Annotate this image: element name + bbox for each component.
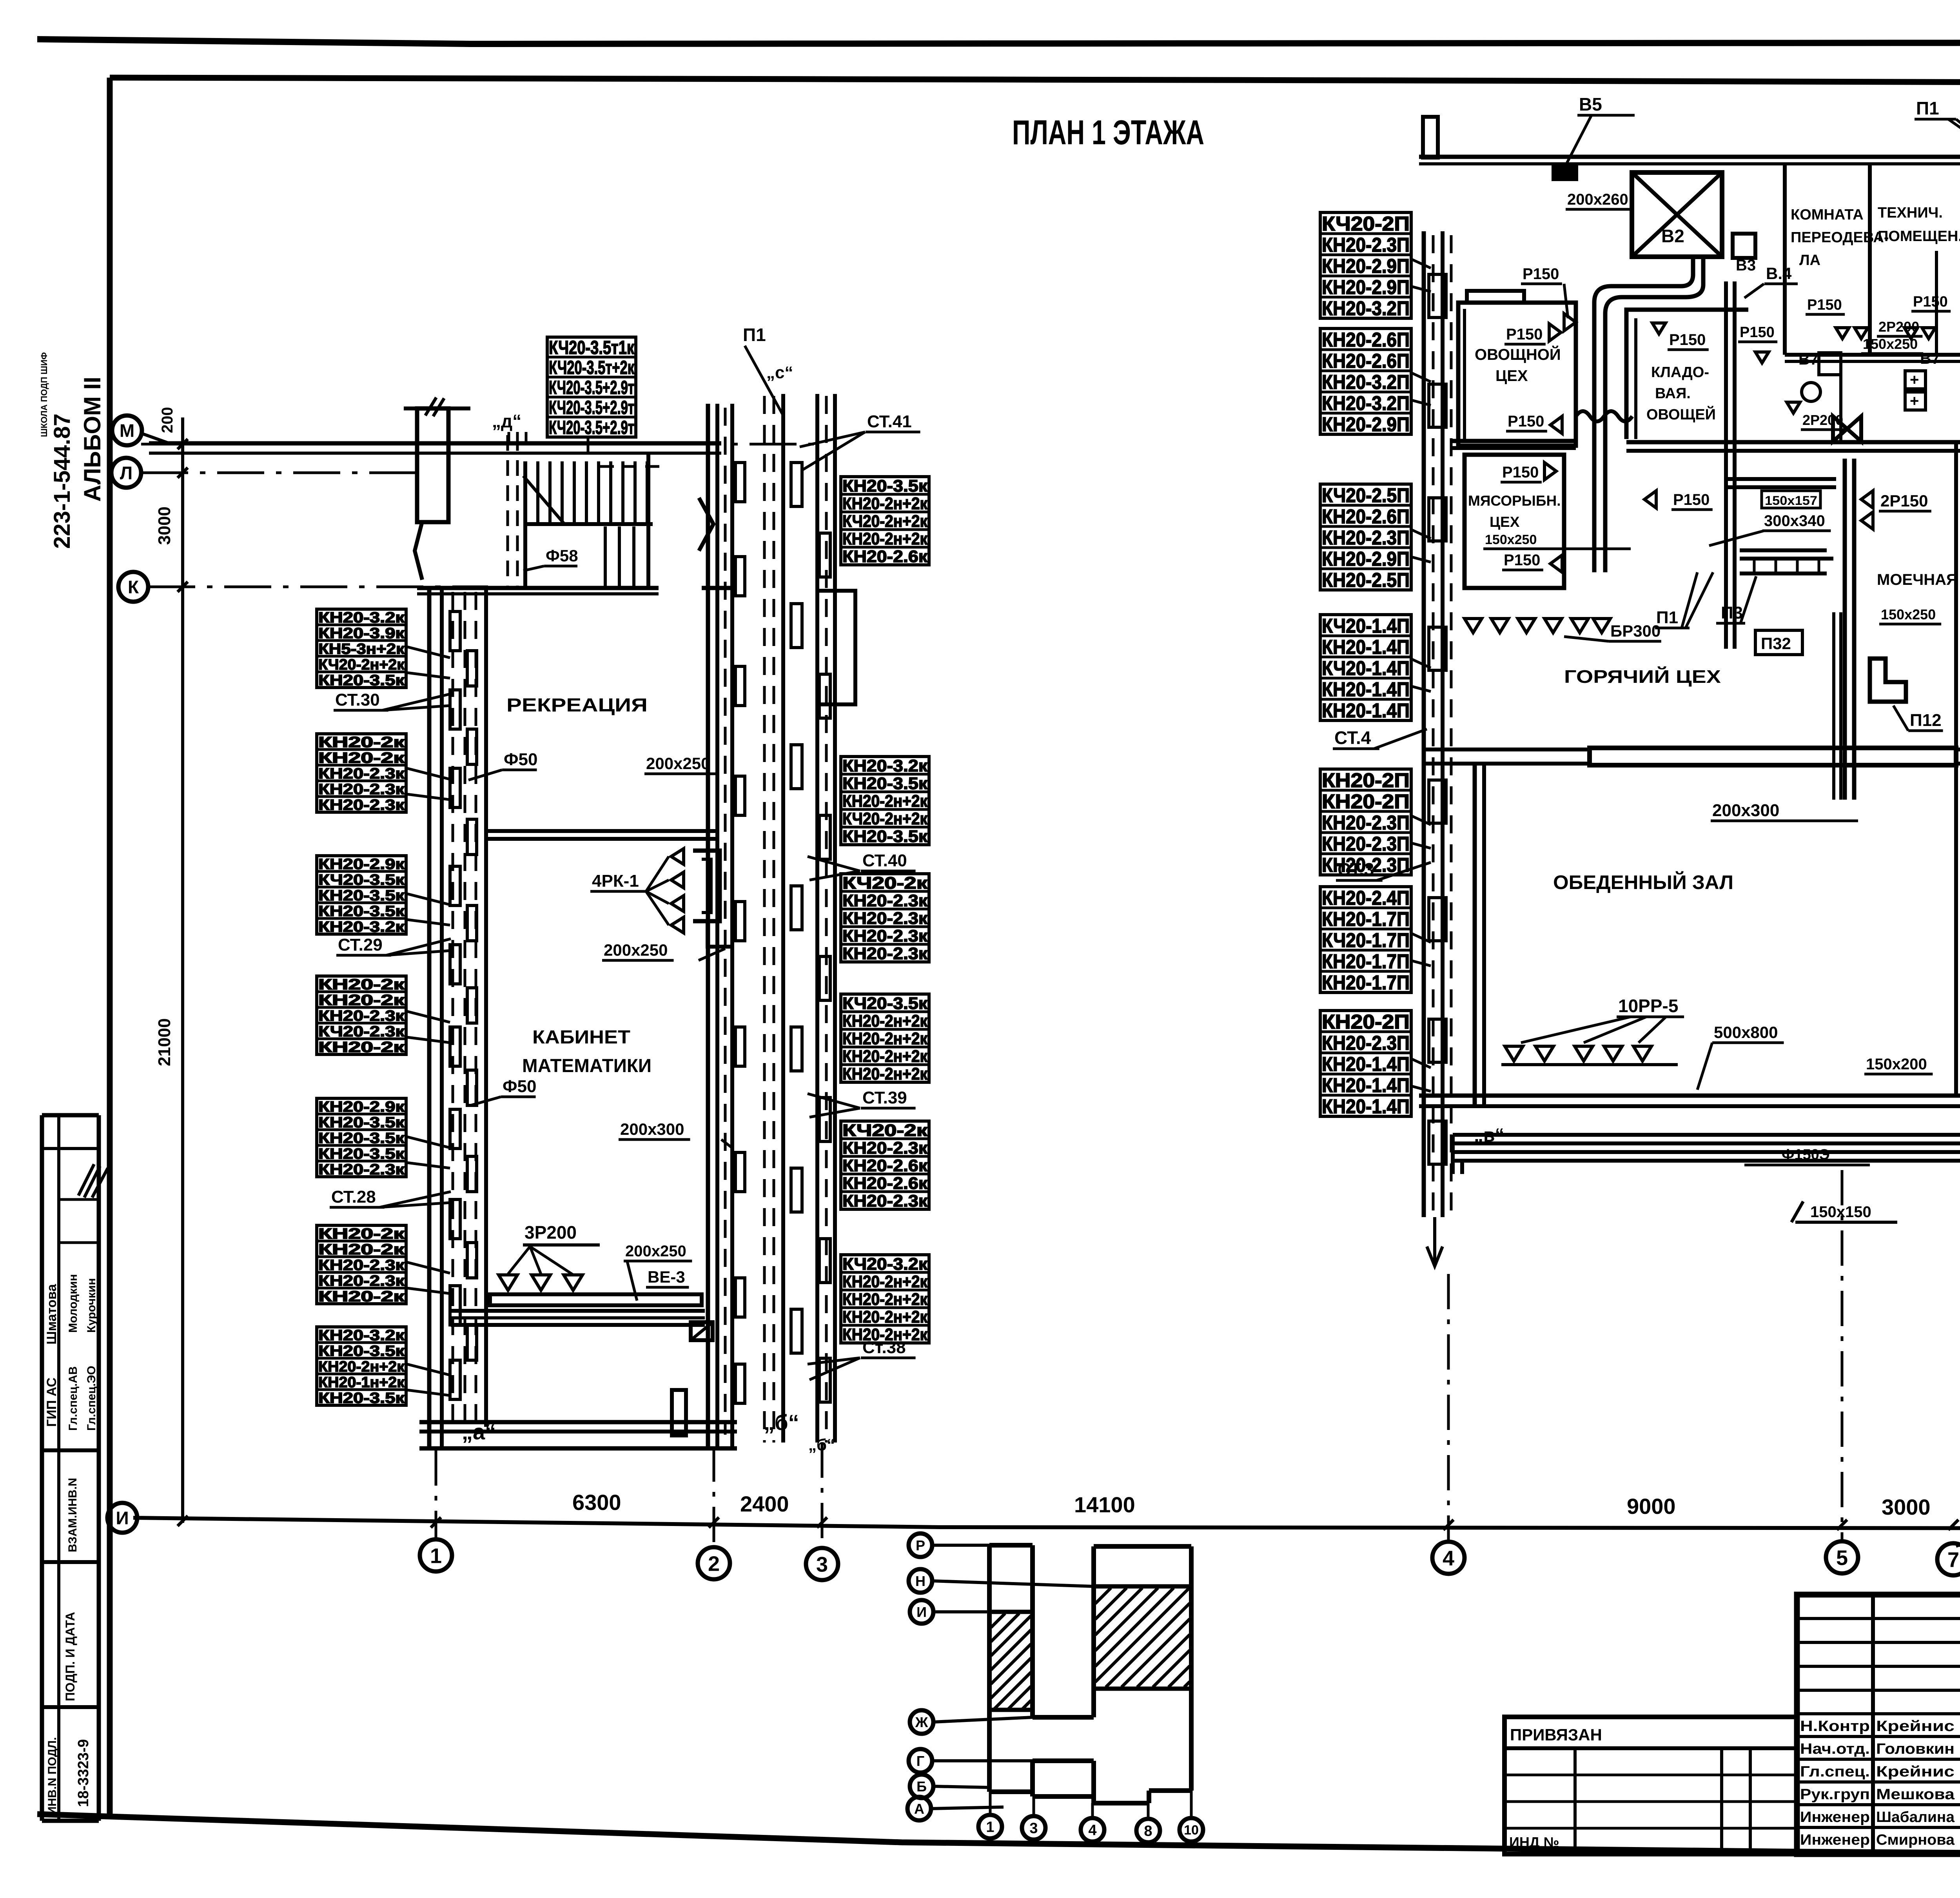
axis circle К (118, 572, 148, 602)
kitchen left wall riser boxes (1429, 274, 1446, 1164)
squiggle connection (1576, 411, 1632, 421)
kitchen left wall strip (1422, 231, 1426, 1217)
fan inlet fitting (1733, 234, 1755, 258)
svg-text:КН20-3.5к: КН20-3.5к (318, 1146, 405, 1162)
svg-text:КН20-2.9П: КН20-2.9П (1322, 276, 1410, 298)
label 300x300 (1762, 512, 1831, 531)
label box group kitchen-1 (1320, 212, 1411, 319)
plus boxes (1905, 371, 1926, 389)
svg-text:ИНВ.N ПОДЛ.: ИНВ.N ПОДЛ. (46, 1737, 59, 1815)
axis 3 dash-dot line (821, 1443, 824, 1547)
svg-text:Р150: Р150 (1673, 491, 1710, 508)
svg-text:Ж: Ж (915, 1714, 928, 1730)
svg-text:КН20-2к: КН20-2к (318, 734, 405, 751)
label 150x250 tr (1861, 336, 1923, 354)
svg-text:КН20-3.9к: КН20-3.9к (318, 625, 405, 642)
label Р150 tr-3 (1738, 324, 1777, 342)
label box group kitchen-4 (1320, 615, 1411, 722)
svg-text:КН20-3.5к: КН20-3.5к (318, 1343, 405, 1359)
svg-text:П12: П12 (1910, 711, 1942, 730)
П segment band (1740, 548, 1827, 552)
svg-text:КН20-2н+2к: КН20-2н+2к (842, 1290, 927, 1309)
dining diffuser row (1505, 1046, 1523, 1061)
label П12 (1893, 706, 1943, 731)
svg-text:6300: 6300 (572, 1490, 621, 1515)
svg-text:Р150: Р150 (1502, 464, 1539, 481)
svg-text:+: + (1910, 371, 1919, 388)
wall segment below кладовая (1725, 477, 1836, 481)
svg-text:МАТЕМАТИКИ: МАТЕМАТИКИ (522, 1056, 652, 1076)
svg-text:КН20-3.5к: КН20-3.5к (318, 1390, 405, 1406)
label box group mid-1 (841, 477, 929, 566)
svg-text:КН20-2.9к: КН20-2.9к (318, 856, 405, 873)
wall технич left (1868, 165, 1872, 355)
svg-text:КН20-1.4П: КН20-1.4П (1322, 678, 1410, 700)
label 200x260 (1566, 191, 1634, 209)
svg-text:СТ.4: СТ.4 (1334, 728, 1371, 748)
svg-text:КЧ20-2н+2к: КЧ20-2н+2к (842, 809, 927, 828)
svg-text:150x250: 150x250 (1881, 606, 1936, 622)
П1 riser strip boxes left (791, 463, 802, 1353)
key plan number circles (978, 1815, 1002, 1838)
svg-text:Нач.отд.: Нач.отд. (1800, 1741, 1870, 1757)
svg-text:Курочкин: Курочкин (85, 1278, 98, 1333)
svg-text:КЧ20-3.5т+2к: КЧ20-3.5т+2к (549, 357, 635, 378)
label В5 (1566, 94, 1635, 165)
duct bundle lines (451, 1309, 705, 1313)
svg-text:ИНД №: ИНД № (1509, 1834, 1559, 1850)
wall комната left (1783, 165, 1787, 355)
svg-text:СТ.40: СТ.40 (862, 851, 907, 870)
svg-text:КН20-2н+2к: КН20-2н+2к (842, 1308, 927, 1326)
svg-text:КН20-2н+2к: КН20-2н+2к (842, 1012, 927, 1031)
stair left wall (523, 461, 527, 590)
svg-text:КН20-2.3к: КН20-2.3к (318, 781, 405, 798)
svg-text:2: 2 (708, 1552, 720, 1575)
label box group left-4 (317, 976, 406, 1056)
svg-text:КН20-1.7П: КН20-1.7П (1322, 950, 1410, 973)
key plan bottom edges (989, 1789, 1033, 1794)
label box group left-7 (317, 1327, 406, 1406)
привязан table (1504, 1717, 1797, 1854)
stair landing line (525, 522, 653, 526)
svg-text:КН20-2к: КН20-2к (318, 1226, 405, 1242)
svg-text:КН20-1.4П: КН20-1.4П (1322, 1074, 1410, 1096)
svg-text:КН20-3.5к: КН20-3.5к (318, 1130, 405, 1147)
dining room left wall (1473, 764, 1477, 1106)
tr triangles (1836, 328, 1849, 339)
svg-text:Ст.38: Ст.38 (862, 1338, 906, 1357)
svg-text:Гл.спец.АВ: Гл.спец.АВ (67, 1366, 80, 1431)
svg-text:КН20-2н+2к: КН20-2н+2к (842, 494, 927, 513)
svg-text:КН20-1.4П: КН20-1.4П (1322, 699, 1410, 722)
stack label СТ.41 (800, 412, 920, 447)
svg-text:КЧ20-3.5+2.9т: КЧ20-3.5+2.9т (549, 417, 634, 438)
axis 5 dash-dot line (1841, 1170, 1844, 1541)
svg-text:КН20-2.6П: КН20-2.6П (1322, 350, 1410, 372)
svg-text:КЧ20-3.5+2.9т: КЧ20-3.5+2.9т (549, 397, 634, 418)
svg-text:В2: В2 (1661, 226, 1684, 246)
left vertical dimension line (181, 417, 184, 1523)
stair duct dashed pair (506, 435, 509, 588)
svg-text:КН20-3.5к: КН20-3.5к (318, 887, 405, 904)
svg-text:КН20-3.5к: КН20-3.5к (318, 672, 405, 689)
svg-text:П3: П3 (1721, 603, 1743, 622)
right wall second (730, 404, 734, 1448)
svg-text:РЕКРЕАЦИЯ: РЕКРЕАЦИЯ (506, 695, 648, 716)
svg-text:3000: 3000 (155, 506, 174, 545)
key plan right tower (1189, 1546, 1194, 1791)
svg-text:КН20-2П: КН20-2П (1322, 790, 1410, 813)
svg-text:КН20-2.3П: КН20-2.3П (1322, 1032, 1410, 1054)
К level wall (417, 586, 659, 590)
svg-text:ПОМЕЩЕН.: ПОМЕЩЕН. (1878, 228, 1960, 245)
svg-text:КН20-2.3П: КН20-2.3П (1322, 526, 1410, 549)
svg-text:Гл.спец.: Гл.спец. (1800, 1764, 1870, 1780)
duct end box with diagonal (691, 1322, 713, 1340)
label БР300 (1609, 622, 1661, 641)
svg-text:СТ.29: СТ.29 (338, 935, 383, 954)
kitchen strip bottom arrow (1427, 1217, 1443, 1266)
stairs diagonal cut (523, 476, 564, 524)
small arrows near 4РК-1 (671, 849, 684, 864)
bottom wall of left building (419, 1420, 737, 1424)
svg-text:КН20-2.3к: КН20-2.3к (842, 944, 928, 963)
key plan letter circle Г (909, 1749, 932, 1773)
svg-text:БР300: БР300 (1610, 622, 1661, 640)
svg-text:И: И (916, 1604, 927, 1620)
svg-text:АЛЬБОМ II: АЛЬБОМ II (79, 377, 105, 502)
label box group left-2 (317, 734, 406, 813)
svg-text:3000: 3000 (1882, 1495, 1931, 1519)
duct run rectangle (490, 1294, 702, 1305)
svg-text:КН20-3.2П: КН20-3.2П (1322, 297, 1410, 319)
label Р150 tr-1 (1806, 297, 1845, 314)
svg-text:КН20-3.5к: КН20-3.5к (318, 1114, 405, 1131)
bottom dimension line (133, 1518, 1960, 1529)
svg-text:КН20-3.2к: КН20-3.2к (842, 757, 928, 775)
svg-text:200x260: 200x260 (1567, 191, 1628, 208)
svg-text:КН20-2н+2к: КН20-2н+2к (842, 792, 927, 811)
svg-text:3: 3 (816, 1553, 828, 1576)
svg-text:150x250: 150x250 (1863, 336, 1918, 352)
stack label СТ.4 (1333, 728, 1427, 749)
svg-text:КЧ20-2.3к: КЧ20-2.3к (318, 1023, 405, 1040)
division wall right part (1626, 440, 1960, 445)
svg-text:200x300: 200x300 (620, 1120, 684, 1138)
axis circle Л (111, 458, 141, 488)
label box group kitchen-2 (1320, 328, 1411, 435)
label box group kitchen-5 (1320, 769, 1411, 876)
label 200x250 mid (602, 941, 725, 960)
label box group kitchen-3 (1320, 484, 1411, 591)
svg-text:„д“: „д“ (492, 411, 521, 431)
bundle left drop (1451, 1135, 1455, 1174)
right wall outer (706, 404, 710, 1448)
label 200x300 dining (1711, 801, 1858, 821)
svg-text:П32: П32 (1761, 634, 1791, 653)
label box group left-1 (317, 609, 406, 689)
svg-text:КН20-3.5к: КН20-3.5к (842, 827, 928, 846)
svg-text:Гл.спец.ЭО: Гл.спец.ЭО (85, 1366, 98, 1431)
label box group left-3 (317, 856, 406, 935)
svg-text:СТ.41: СТ.41 (867, 412, 912, 431)
svg-text:КН20-2.3к: КН20-2.3к (318, 1161, 405, 1178)
svg-text:КЛАДО-: КЛАДО- (1651, 364, 1709, 381)
left wall inner (440, 588, 444, 1448)
svg-text:КН20-2.9к: КН20-2.9к (318, 1099, 405, 1115)
В5 top duct line (1419, 155, 1960, 159)
axis circle M (112, 416, 142, 445)
right wall inner (715, 404, 719, 1448)
axis circle 7 (1937, 1543, 1960, 1575)
axis circle М leader (142, 434, 169, 443)
svg-text:КН20-2.3к: КН20-2.3к (842, 927, 928, 945)
top box group (547, 337, 636, 438)
top corridor wall upper (149, 441, 721, 446)
key plan letter circle Б (910, 1775, 933, 1798)
svg-text:КЧ20-3.2к: КЧ20-3.2к (842, 1255, 928, 1274)
svg-text:Головкин: Головкин (1876, 1741, 1955, 1757)
door chevron right (699, 498, 713, 551)
svg-text:ВАЯ.: ВАЯ. (1655, 385, 1691, 402)
label Р150 klb (1671, 491, 1713, 510)
svg-text:Р150: Р150 (1504, 552, 1540, 569)
riser boxes second column (467, 651, 477, 1360)
svg-text:ШКОЛА ПОДП ШИФ: ШКОЛА ПОДП ШИФ (39, 352, 49, 437)
svg-text:И: И (116, 1508, 129, 1528)
svg-text:150x200: 150x200 (1866, 1056, 1927, 1073)
svg-text:4РК-1: 4РК-1 (592, 871, 639, 891)
svg-text:КН20-2к: КН20-2к (318, 1241, 405, 1258)
svg-text:КН20-2н+2к: КН20-2н+2к (842, 1065, 927, 1083)
stairs treads flight 1 (538, 461, 647, 524)
svg-text:Н: Н (915, 1573, 926, 1589)
svg-text:КН20-2.6П: КН20-2.6П (1322, 505, 1410, 528)
svg-text:2400: 2400 (740, 1492, 789, 1516)
riser boxes along right wall (735, 463, 745, 1403)
triangle marker ov-1 (1564, 314, 1576, 331)
П12 duct column (1843, 459, 1847, 800)
axis circle 1 (420, 1539, 452, 1571)
label 200x300 (619, 1120, 733, 1149)
овощной цех walls (1458, 303, 1576, 446)
label box group mid-5 (841, 1121, 929, 1210)
svg-text:Н.Контр: Н.Контр (1800, 1718, 1870, 1735)
key plan left tower (987, 1545, 992, 1792)
svg-text:СТ.3: СТ.3 (1338, 859, 1374, 880)
svg-text:КН20-2.3к: КН20-2.3к (318, 766, 405, 782)
label Р150 my-2 (1502, 552, 1543, 570)
label box group kitchen-7 (1320, 1011, 1411, 1118)
key plan letter circle А (907, 1797, 931, 1820)
svg-text:200x250: 200x250 (625, 1243, 686, 1260)
мясорыбный цех walls (1465, 455, 1564, 588)
svg-text:КН20-2.3П: КН20-2.3П (1322, 833, 1410, 855)
svg-text:КН20-1.7П: КН20-1.7П (1322, 908, 1410, 930)
room left boundary (484, 590, 488, 1427)
svg-text:КЧ20-2.5П: КЧ20-2.5П (1322, 484, 1410, 506)
frame bottom line (37, 1814, 1960, 1857)
stamp signatures scribble (78, 1164, 108, 1198)
label box group mid-2 (841, 757, 929, 846)
svg-text:КЧ20-2к: КЧ20-2к (842, 874, 928, 893)
svg-text:КН20-1.4П: КН20-1.4П (1322, 1095, 1410, 1118)
svg-text:Р150: Р150 (1506, 326, 1543, 343)
label Р150 ov-3 (1506, 413, 1547, 431)
svg-text:КН20-2.3к: КН20-2.3к (318, 1008, 405, 1024)
axis circle 4 (1432, 1542, 1465, 1574)
label Р150 kl (1668, 331, 1709, 350)
left stamp strip table (42, 1115, 99, 1821)
riser boxes along left wall (450, 611, 460, 1399)
key plan leader lines (932, 1544, 989, 1547)
left wall outer (427, 588, 432, 1448)
svg-text:Ф50: Ф50 (503, 1077, 537, 1096)
svg-text:КН20-1.4П: КН20-1.4П (1322, 636, 1410, 658)
svg-text:СТ.30: СТ.30 (335, 690, 380, 709)
svg-text:КН20-2к: КН20-2к (318, 976, 405, 993)
corridor dashes in stairwell (600, 465, 666, 468)
bottom duct bundle (1453, 1133, 1960, 1137)
svg-text:КН20-3.2к: КН20-3.2к (318, 919, 405, 935)
label box group mid-3 (841, 874, 929, 963)
svg-text:КОМНАТА: КОМНАТА (1791, 207, 1864, 223)
axis line К dash-dot (148, 586, 488, 588)
duct hook at 4РК-1 (693, 851, 720, 921)
svg-text:П1: П1 (743, 325, 766, 345)
svg-text:14100: 14100 (1074, 1492, 1135, 1517)
svg-text:200x250: 200x250 (646, 754, 710, 773)
label 10РР-5 (1617, 996, 1684, 1017)
label Р150 tr-2 (1911, 294, 1951, 311)
svg-text:КЧ20-3.5т1к: КЧ20-3.5т1к (549, 338, 635, 358)
key plan middle connector (1033, 1715, 1094, 1720)
key plan letter circle Р (909, 1533, 932, 1557)
label 2Р150 (1879, 492, 1931, 511)
svg-text:ВЗАМ.ИНВ.N: ВЗАМ.ИНВ.N (66, 1478, 79, 1552)
key plan right hatch block (1094, 1584, 1191, 1589)
svg-text:КН20-2.3П: КН20-2.3П (1322, 811, 1410, 834)
frame top line (110, 78, 1960, 84)
svg-text:Молодкин: Молодкин (67, 1274, 80, 1333)
svg-text:КН20-2.3к: КН20-2.3к (318, 1257, 405, 1274)
svg-text:200x300: 200x300 (1712, 801, 1779, 820)
key plan left hatch block (989, 1610, 1033, 1614)
stack label СТ.28 (330, 1187, 451, 1207)
svg-text:223-1-544.87: 223-1-544.87 (49, 414, 75, 549)
elbow below 4РК-1 (708, 923, 732, 968)
group leader lines left col (407, 647, 450, 1395)
stair right wall (646, 455, 650, 590)
svg-text:10: 10 (1184, 1823, 1199, 1838)
П12 elbow duct (1870, 659, 1906, 702)
svg-text:КН20-3.2П: КН20-3.2П (1322, 371, 1410, 393)
svg-text:21000: 21000 (155, 1018, 174, 1066)
pier slash marks (425, 397, 444, 416)
svg-text:КН20-2.9П: КН20-2.9П (1322, 548, 1410, 570)
svg-text:КН20-3.2к: КН20-3.2к (318, 1327, 405, 1344)
svg-text:В5: В5 (1579, 94, 1602, 114)
svg-text:Ф58: Ф58 (546, 546, 578, 565)
svg-text:КН20-2.3к: КН20-2.3к (842, 891, 928, 910)
svg-text:КН20-2к: КН20-2к (318, 1288, 405, 1305)
svg-text:КН20-2.3к: КН20-2.3к (318, 797, 405, 813)
right wall dashed (724, 408, 727, 1435)
svg-text:КЧ20-3.5к: КЧ20-3.5к (842, 994, 928, 1013)
label 150x200 (1864, 1056, 1933, 1074)
svg-text:КН20-2.3к: КН20-2.3к (842, 1139, 928, 1158)
svg-text:1: 1 (986, 1819, 994, 1836)
label Ф58 (523, 546, 578, 571)
svg-text:КН20-2н+2к: КН20-2н+2к (842, 530, 927, 548)
axis line M dash-dot (141, 443, 823, 446)
svg-text:ВЕ-3: ВЕ-3 (648, 1268, 685, 1286)
group leader lines kitchen col (1410, 259, 1431, 1091)
svg-text:ГИП АС: ГИП АС (44, 1377, 59, 1427)
svg-text:ОВОЩНОЙ: ОВОЩНОЙ (1475, 345, 1561, 363)
stack label СТ.39 (808, 1088, 916, 1108)
label 2Р150 marker (1861, 491, 1873, 508)
П12 side pair (1832, 612, 1835, 800)
svg-text:КН20-2к: КН20-2к (318, 992, 405, 1009)
top corridor wall lower (149, 452, 721, 455)
corridor wall pier (417, 408, 448, 522)
svg-text:Р150: Р150 (1807, 297, 1842, 313)
svg-text:Б: Б (916, 1778, 927, 1795)
axis 2 dash-dot line (713, 1446, 715, 1546)
label Р150 ov-2 (1504, 326, 1546, 344)
svg-text:КЧ20-1.4П: КЧ20-1.4П (1322, 657, 1410, 679)
key plan letter circle Ж (910, 1710, 933, 1734)
key plan letter circle И (910, 1600, 933, 1624)
svg-text:3: 3 (1029, 1820, 1038, 1837)
division wall y1125 (1450, 439, 1576, 443)
svg-text:Крейнис: Крейнис (1876, 1764, 1955, 1780)
svg-text:Р150: Р150 (1523, 265, 1559, 283)
svg-text:СТ.28: СТ.28 (331, 1187, 376, 1207)
svg-text:КН20-2.6П: КН20-2.6П (1322, 328, 1410, 351)
svg-text:Р: Р (916, 1537, 925, 1553)
svg-text:КН20-3.2к: КН20-3.2к (318, 610, 405, 626)
svg-text:Л: Л (120, 463, 132, 483)
svg-text:КН20-2.3к: КН20-2.3к (318, 1273, 405, 1289)
svg-text:К: К (128, 577, 139, 597)
stack label Ст.38 (808, 1338, 916, 1364)
svg-text:200: 200 (159, 407, 176, 433)
svg-text:КН20-1.4П: КН20-1.4П (1322, 1053, 1410, 1075)
svg-text:ПРИВЯЗАН: ПРИВЯЗАН (1510, 1726, 1602, 1744)
label box group mid-4 (841, 994, 929, 1083)
svg-text:КН20-2н+2к: КН20-2н+2к (318, 1359, 405, 1375)
svg-text:Р150: Р150 (1740, 324, 1775, 341)
svg-text:Ф150Э: Ф150Э (1782, 1147, 1830, 1163)
svg-text:18-3323-9: 18-3323-9 (75, 1739, 92, 1807)
svg-text:КН20-3.5к: КН20-3.5к (842, 477, 928, 495)
svg-text:Г: Г (916, 1753, 924, 1769)
svg-text:КЧ20-2н+2к: КЧ20-2н+2к (318, 657, 405, 673)
svg-text:КН20-2.3к: КН20-2.3к (842, 1192, 928, 1210)
label Ф50 upper (468, 750, 538, 780)
svg-text:150x250: 150x250 (1485, 532, 1537, 547)
X valve (1833, 416, 1861, 441)
svg-text:200x250: 200x250 (604, 941, 668, 959)
svg-text:„а“: „а“ (462, 1419, 496, 1444)
svg-text:8: 8 (1144, 1823, 1152, 1840)
dining diffuser row line (1501, 1063, 1678, 1066)
svg-text:КН20-2.6к: КН20-2.6к (842, 547, 928, 566)
svg-text:ЛА: ЛА (1799, 252, 1820, 269)
